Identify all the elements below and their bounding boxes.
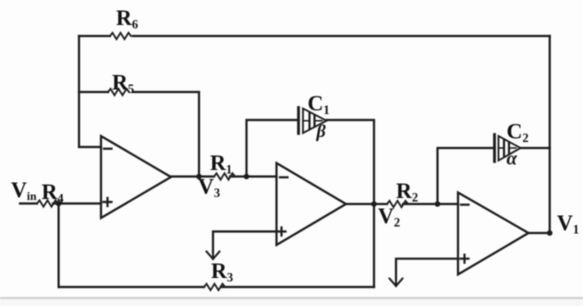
svg-text:V2: V2 xyxy=(378,203,400,230)
node V2 junction dot xyxy=(371,201,377,207)
wire vertical up to C1 left lead xyxy=(247,120,299,177)
svg-text:V1: V1 xyxy=(557,210,579,237)
resistor R2 xyxy=(387,201,408,207)
wire V2 to R2 xyxy=(374,203,387,205)
svg-text:Vin: Vin xyxy=(11,177,37,203)
resistor R4 xyxy=(37,200,58,206)
wire right vertical from top wire down to V1 node xyxy=(549,36,551,233)
op-amp U2 minus marker xyxy=(280,176,288,178)
op-amp U3 minus marker xyxy=(461,204,469,206)
node C1 tap junction dot xyxy=(244,174,250,180)
wire vertical from R4 node down to bottom rail xyxy=(57,204,59,288)
svg-text:R5: R5 xyxy=(112,70,134,97)
wire top feedback from V1 node to left vertical xyxy=(133,35,550,37)
capacitor C2 fractional element xyxy=(495,135,521,162)
svg-text:C1: C1 xyxy=(308,91,330,118)
svg-text:R2: R2 xyxy=(396,178,418,205)
wire U1 output to R1 xyxy=(171,175,214,177)
wire bottom rail left of R3 xyxy=(59,286,204,288)
ground (U3 non-inverting input) xyxy=(390,279,403,287)
wire R5 left lead from left vertical xyxy=(79,91,108,93)
wire C2 right lead to right vertical xyxy=(521,147,550,149)
resistor R6 xyxy=(110,33,131,39)
svg-text:R3: R3 xyxy=(211,258,233,285)
resistor R3 xyxy=(204,284,225,290)
wire U3 output to node V1 xyxy=(529,232,550,234)
node R4 junction dot xyxy=(56,201,62,207)
wire bottom rail right of R3 up to node V2 xyxy=(221,286,374,288)
wire U3 non-inverting input to ground xyxy=(396,259,458,279)
op-amp U3 xyxy=(458,193,529,275)
op-amp U2 xyxy=(277,163,347,245)
svg-text:β: β xyxy=(316,121,327,141)
capacitor C1 fractional element xyxy=(299,108,327,134)
wire U2 non-inverting input to ground xyxy=(213,232,277,253)
node V1 junction dot xyxy=(547,230,553,236)
scan artifact bottom band xyxy=(0,299,583,306)
node C2 tap junction dot xyxy=(435,201,441,207)
svg-text:V3: V3 xyxy=(198,174,220,201)
svg-text:α: α xyxy=(507,149,518,170)
wire Vin input lead xyxy=(20,202,37,204)
wire U2 output to node V2 xyxy=(346,203,374,205)
svg-text:R4: R4 xyxy=(42,179,65,206)
op-amp U1 xyxy=(101,136,171,218)
wire R2 to op-amp U3 inverting input xyxy=(403,203,458,205)
op-amp U2 plus marker xyxy=(278,228,286,236)
wire top-left lead into R6 xyxy=(79,35,110,37)
wire R4 to op-amp U1 non-inverting input xyxy=(53,202,101,204)
node V3 junction dot xyxy=(196,174,202,180)
wire left vertical down to op-amp U1 inverting input xyxy=(79,36,101,147)
op-amp U3 plus marker xyxy=(461,255,469,263)
scan artifact bottom edge line xyxy=(0,297,583,299)
wire vertical up to C2 left lead xyxy=(438,148,495,204)
op-amp U1 plus marker xyxy=(104,198,112,206)
wire R1 to op-amp U2 inverting input xyxy=(230,175,277,177)
resistor R1 xyxy=(214,173,235,179)
svg-text:R6: R6 xyxy=(116,5,138,32)
svg-text:C2: C2 xyxy=(507,119,529,146)
resistor R5 xyxy=(108,89,129,95)
ground (U2 non-inverting input) xyxy=(207,252,220,260)
wire C1 right lead down to node V2 and bottom rail xyxy=(327,120,375,287)
wire R5 right lead down to node V3 xyxy=(133,92,199,177)
op-amp U1 minus marker xyxy=(104,148,112,150)
